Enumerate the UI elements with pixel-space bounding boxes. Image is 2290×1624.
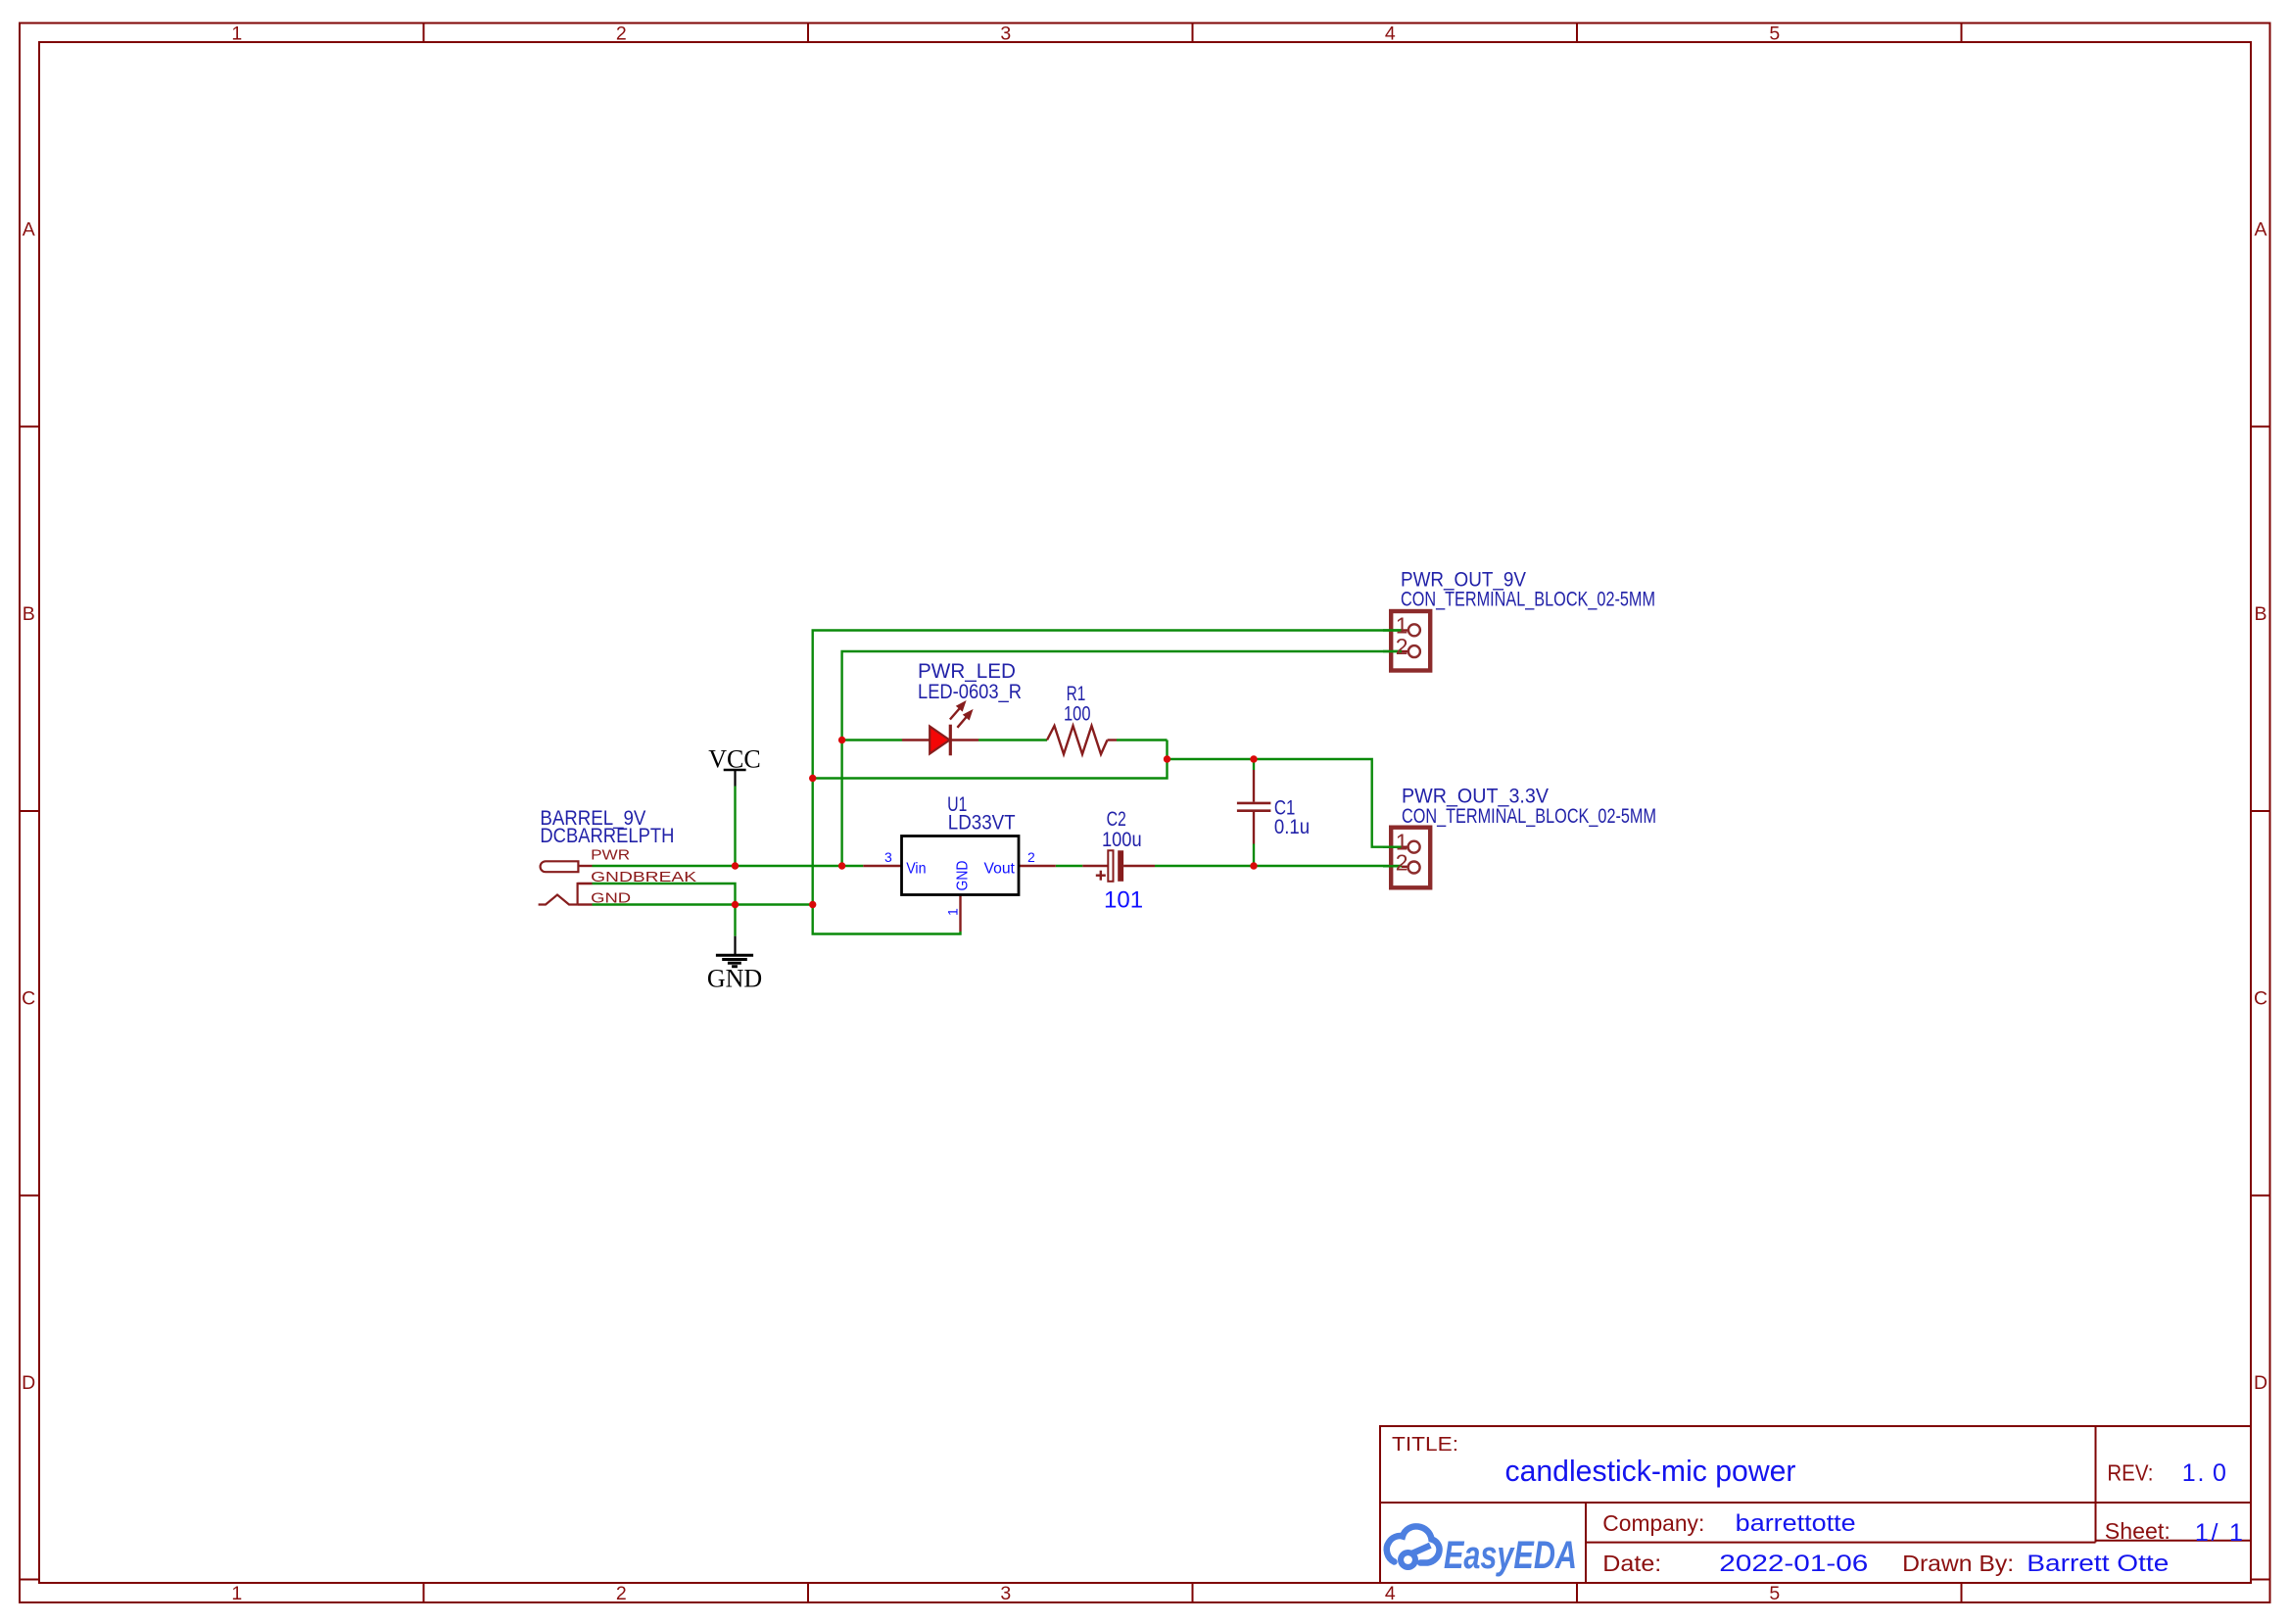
svg-text:Company:: Company: [1602,1510,1704,1536]
svg-text:3: 3 [884,849,892,865]
svg-text:C: C [22,987,35,1009]
svg-text:1: 1 [2182,1459,2196,1487]
svg-text:1: 1 [945,908,961,916]
svg-text:2: 2 [1396,634,1408,659]
svg-text:B: B [2254,603,2266,625]
svg-text:D: D [22,1372,35,1394]
svg-text:B: B [23,603,35,625]
svg-text:3: 3 [1000,23,1011,44]
svg-text:Vin: Vin [906,861,926,878]
svg-text:1: 1 [231,1583,242,1604]
svg-text:EasyEDA: EasyEDA [1444,1534,1577,1577]
svg-text:Drawn By:: Drawn By: [1902,1551,2014,1576]
svg-text:GND: GND [591,890,631,907]
svg-text:Barrett Otte: Barrett Otte [2027,1551,2169,1577]
svg-text:2: 2 [1396,850,1408,876]
svg-text:1: 1 [2229,1519,2243,1547]
svg-text:100: 100 [1064,703,1091,726]
svg-text:PWR: PWR [591,847,630,864]
svg-text:Vout: Vout [984,861,1016,878]
svg-text:CON_TERMINAL_BLOCK_02-5MM: CON_TERMINAL_BLOCK_02-5MM [1401,589,1655,611]
svg-text:0: 0 [2213,1459,2226,1487]
svg-text:4: 4 [1385,23,1396,44]
svg-text:0.1u: 0.1u [1274,816,1310,838]
svg-text:2: 2 [616,23,627,44]
svg-text:GND: GND [707,964,762,992]
svg-text:REV:: REV: [2107,1460,2153,1486]
svg-text:A: A [23,218,35,240]
svg-text:LD33VT: LD33VT [948,812,1016,835]
svg-text:3: 3 [1000,1583,1011,1604]
svg-text:4: 4 [1385,1583,1396,1604]
svg-text:candlestick-mic power: candlestick-mic power [1505,1454,1796,1488]
svg-text:2022-01-06: 2022-01-06 [1719,1551,1868,1577]
svg-text:PWR_LED: PWR_LED [918,660,1016,683]
svg-text:A: A [2254,218,2266,240]
svg-text:101: 101 [1104,886,1143,913]
svg-text:barrettotte: barrettotte [1736,1510,1856,1537]
svg-text:Sheet:: Sheet: [2105,1518,2171,1544]
svg-text:100u: 100u [1102,829,1142,851]
svg-text:C2: C2 [1107,808,1126,831]
svg-text:C: C [2254,987,2267,1009]
svg-text:.: . [2198,1459,2205,1487]
svg-text:/: / [2212,1519,2218,1547]
svg-text:D: D [2254,1372,2267,1394]
svg-text:GNDBREAK: GNDBREAK [591,869,696,885]
svg-text:1: 1 [231,23,242,44]
svg-text:1: 1 [2195,1519,2209,1547]
svg-text:5: 5 [1769,1583,1780,1604]
svg-text:CON_TERMINAL_BLOCK_02-5MM: CON_TERMINAL_BLOCK_02-5MM [1402,805,1656,828]
svg-text:Date:: Date: [1602,1551,1661,1576]
svg-text:2: 2 [616,1583,627,1604]
svg-text:5: 5 [1769,23,1780,44]
svg-text:LED-0603_R: LED-0603_R [918,681,1022,703]
svg-text:2: 2 [1027,849,1035,865]
svg-text:TITLE:: TITLE: [1392,1434,1458,1456]
svg-text:DCBARRELPTH: DCBARRELPTH [540,825,674,847]
svg-text:GND: GND [955,861,972,891]
